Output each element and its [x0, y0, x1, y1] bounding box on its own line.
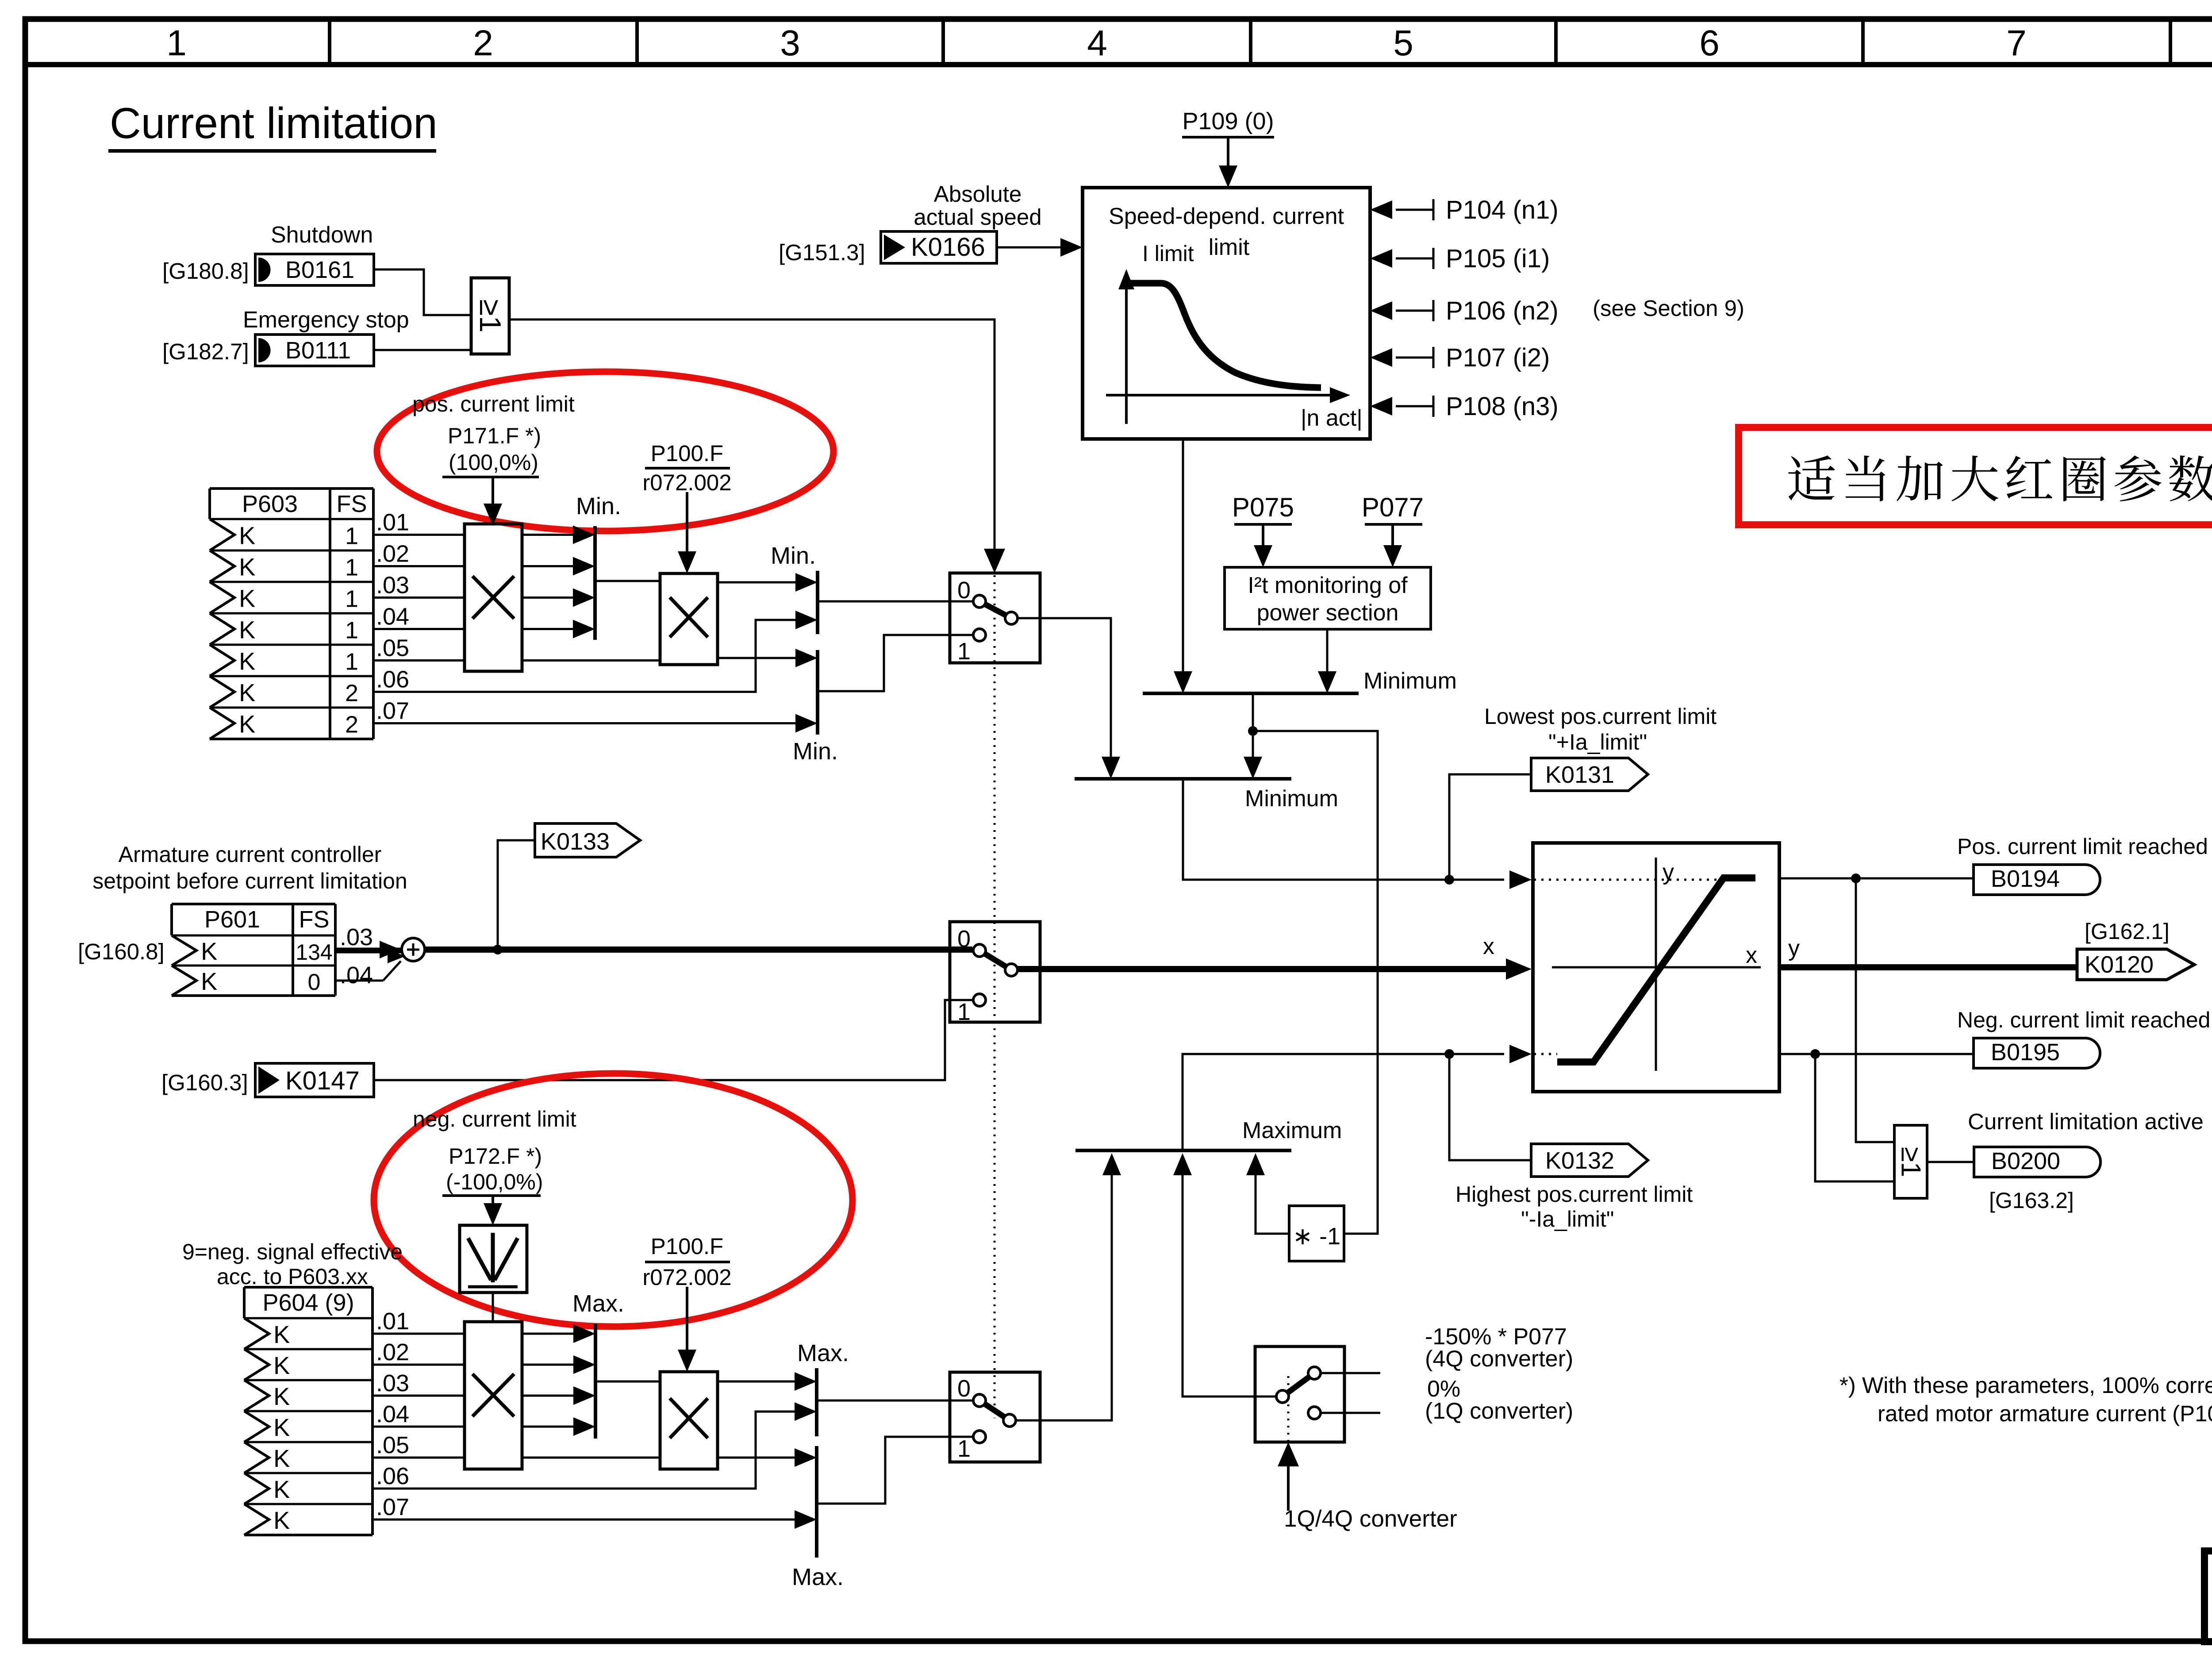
svg-text:.03: .03: [340, 924, 373, 950]
wires multiplier X3 outputs to Max rail: [522, 1333, 575, 1335]
wire .07 to Min rail M2: [373, 722, 796, 724]
svg-text:[G180.8]: [G180.8]: [162, 258, 249, 284]
svg-text:(100,0%): (100,0%): [449, 450, 538, 475]
wire X2 lower output to Min rail M2: [718, 657, 796, 659]
binector output B0200: [1974, 1147, 2101, 1177]
maximum rail output to limiter lower input: [1183, 1054, 1504, 1150]
svg-text:P601: P601: [204, 906, 260, 933]
svg-text:[G162.1]: [G162.1]: [2085, 919, 2170, 944]
speed-dependent current limit block: [1083, 188, 1370, 439]
svg-text:actual speed: actual speed: [914, 204, 1041, 230]
main setpoint line (thick): [425, 946, 972, 953]
svg-text:K: K: [239, 553, 255, 581]
wire limiter upper output to B0194: [1779, 877, 1974, 880]
svg-text:Minimum: Minimum: [1245, 786, 1338, 812]
svg-text:"+Ia_limit": "+Ia_limit": [1548, 730, 1647, 754]
wire junction down to Minimum rail M3: [1252, 731, 1254, 759]
wire B0161 to OR gate: [374, 269, 471, 315]
svg-text:B0194: B0194: [1991, 866, 2060, 892]
svg-text:Max.: Max.: [572, 1290, 624, 1317]
svg-text:Pos. current limit reached: Pos. current limit reached: [1957, 834, 2208, 859]
svg-text:K0133: K0133: [541, 828, 610, 855]
svg-text:1: 1: [957, 638, 971, 665]
svg-text:P075: P075: [1232, 492, 1294, 522]
svg-text:Emergency stop: Emergency stop: [243, 307, 409, 333]
svg-text:K: K: [239, 585, 255, 612]
wire OR output to switch control: [509, 319, 995, 551]
svg-text:FS: FS: [336, 491, 367, 517]
svg-text:2: 2: [473, 23, 493, 63]
minimum rail M1: [593, 526, 597, 640]
wire K0132: [1449, 1058, 1531, 1160]
svg-text:x: x: [1483, 934, 1494, 959]
svg-text:.05: .05: [376, 635, 409, 662]
svg-text:.04: .04: [340, 962, 373, 989]
svg-text:1: 1: [345, 523, 358, 550]
svg-text:y: y: [1663, 859, 1674, 885]
sheet number box - G161 -: [2204, 1551, 2212, 1642]
svg-text:B0161: B0161: [285, 257, 354, 283]
svg-text:(4Q converter): (4Q converter): [1425, 1346, 1573, 1372]
wires P604 outputs: [373, 1333, 465, 1335]
svg-text:.05: .05: [376, 1432, 409, 1458]
svg-text:.06: .06: [376, 666, 409, 693]
wire M2 lower output to switch S1 input 1: [818, 635, 973, 691]
svg-text:K: K: [273, 1382, 290, 1410]
svg-text:Lowest pos.current limit: Lowest pos.current limit: [1484, 704, 1717, 729]
svg-text:K0132: K0132: [1545, 1147, 1614, 1174]
wire *-1 output to maximum rail: [1256, 1173, 1289, 1234]
konnector output K0133: [535, 823, 640, 857]
connector table P604: [244, 1286, 373, 1289]
svg-text:(see Section 9): (see Section 9): [1593, 296, 1744, 321]
limiter dashed lower limit: [1534, 1053, 1557, 1055]
multiplier X1 (pos limit): [465, 524, 522, 671]
wire U2 to B0200: [1927, 1161, 1974, 1163]
svg-text:P106 (n2): P106 (n2): [1446, 296, 1559, 325]
svg-text:.07: .07: [376, 1494, 409, 1520]
header band bottom rule: [25, 62, 2212, 67]
svg-text:.07: .07: [376, 698, 409, 724]
selector switch S1 (pos limit): [950, 573, 1040, 663]
minimum rail M2 lower: [816, 650, 819, 735]
svg-text:K: K: [239, 679, 255, 707]
svg-text:Shutdown: Shutdown: [271, 222, 373, 248]
svg-text:Highest pos.current limit: Highest pos.current limit: [1455, 1182, 1693, 1207]
wire K.03 to summer (thick): [335, 948, 402, 954]
svg-text:.04: .04: [376, 1401, 409, 1427]
wire 4Q option: [1321, 1372, 1380, 1374]
wire K0166 to speed block: [997, 246, 1062, 249]
svg-text:Neg. current limit reached: Neg. current limit reached: [1957, 1008, 2210, 1032]
svg-text:B0195: B0195: [1991, 1039, 2060, 1066]
maximum rail M4: [1075, 1149, 1291, 1152]
svg-text:K: K: [239, 647, 255, 675]
wire limiter y output to K0120 (thick): [1779, 964, 2077, 970]
svg-text:5: 5: [1393, 23, 1413, 63]
svg-text:P107 (i2): P107 (i2): [1446, 343, 1550, 372]
wire P100.F to multiplier X2: [686, 492, 688, 552]
wire .07 to Max rail N2: [373, 1519, 795, 1521]
svg-text:Max.: Max.: [797, 1340, 849, 1366]
svg-text:1: 1: [345, 649, 358, 675]
wire B0111 to OR gate: [374, 349, 471, 351]
konnector K0166: [881, 231, 997, 263]
svg-text:*) With these parameters, 100: *) With these parameters, 100% correspon…: [1839, 1373, 2212, 1398]
svg-text:K: K: [239, 710, 255, 738]
svg-text:limit: limit: [1209, 235, 1250, 260]
speed limit curve: [1126, 283, 1321, 388]
svg-text:[G160.8]: [G160.8]: [78, 939, 165, 964]
svg-text:"-Ia_limit": "-Ia_limit": [1521, 1207, 1614, 1231]
svg-text:K: K: [273, 1506, 290, 1534]
svg-text:K0147: K0147: [285, 1066, 360, 1095]
svg-text:K: K: [273, 1320, 290, 1348]
limiter dashed upper limit: [1534, 879, 1720, 881]
limiter characteristic curve: [1557, 878, 1755, 1062]
wire .06 to Max rail N2: [373, 1412, 795, 1489]
svg-text:.03: .03: [376, 572, 409, 599]
n act axis: [1106, 394, 1332, 396]
svg-text:3: 3: [780, 23, 800, 63]
svg-text:(-100,0%): (-100,0%): [446, 1170, 543, 1194]
svg-text:P100.F: P100.F: [651, 1234, 723, 1259]
wire M2 upper output to switch S1 input 0: [818, 600, 973, 603]
svg-text:neg. current limit: neg. current limit: [413, 1107, 576, 1131]
svg-text:acc. to P603.xx: acc. to P603.xx: [217, 1264, 368, 1289]
svg-text:Min.: Min.: [576, 493, 621, 519]
svg-text:7: 7: [2006, 23, 2027, 63]
svg-text:P077: P077: [1362, 492, 1424, 522]
svg-text:K: K: [273, 1444, 290, 1472]
wire .06 to Min rail M2: [373, 620, 796, 692]
binector B0111: [255, 335, 374, 366]
svg-text:K: K: [201, 937, 217, 965]
svg-text:134: 134: [296, 940, 332, 965]
wire Max rail N1 to multiplier X4: [595, 1381, 660, 1383]
svg-text:0: 0: [957, 577, 971, 604]
multiplier X4 (neg norm): [660, 1372, 718, 1469]
binector B0161: [255, 254, 374, 285]
svg-text:P109 (0): P109 (0): [1182, 108, 1274, 135]
konnector output K0131: [1531, 758, 1648, 791]
parameter inputs P104-P108: [1396, 209, 1433, 211]
wire P077 down: [1391, 524, 1394, 548]
svg-text:0: 0: [308, 969, 321, 995]
maximum rail N2 lower: [815, 1446, 818, 1558]
svg-text:K0120: K0120: [2085, 951, 2154, 978]
selector switch 1Q/4Q: [1255, 1347, 1344, 1442]
multiplier X2 (pos norm): [660, 573, 718, 665]
wires multiplier X1 outputs to Min bar: [522, 534, 575, 536]
svg-text:(1Q converter): (1Q converter): [1425, 1398, 1573, 1424]
konnector output K0120: [2077, 949, 2194, 980]
I limit axis: [1125, 285, 1128, 424]
svg-text:r072.002: r072.002: [642, 1265, 731, 1290]
svg-text:.02: .02: [376, 541, 409, 567]
wire B0195 branch to OR gate U2: [1815, 1054, 1894, 1181]
svg-text:[G182.7]: [G182.7]: [162, 339, 249, 364]
svg-text:1: 1: [345, 586, 358, 612]
svg-text:1: 1: [957, 999, 971, 1025]
svg-text:[G163.2]: [G163.2]: [1989, 1188, 2074, 1213]
svg-text:9=neg. signal effective: 9=neg. signal effective: [182, 1239, 403, 1264]
minimum rail M2 upper: [816, 571, 819, 634]
svg-text:|n act|: |n act|: [1301, 405, 1363, 431]
wire limiter lower output to B0195: [1779, 1053, 1974, 1055]
wire 1Q option: [1321, 1412, 1380, 1414]
wire P075 down: [1262, 524, 1264, 548]
svg-text:1: 1: [166, 23, 187, 63]
svg-text:0: 0: [957, 1375, 971, 1402]
wire M3 output to limiter upper input: [1183, 779, 1504, 880]
svg-text:B0111: B0111: [285, 337, 351, 364]
svg-text:.01: .01: [376, 509, 409, 536]
wire X2 upper output to Min rail M2: [718, 581, 796, 584]
svg-text:Minimum: Minimum: [1363, 668, 1457, 694]
wire K0131: [1449, 774, 1531, 875]
wire S2 output to limiter x input (thick): [1018, 966, 1506, 972]
header column separators: [328, 22, 331, 62]
junction to K0131: [1444, 875, 1454, 885]
svg-text:1: 1: [345, 554, 358, 581]
limiter block: [1533, 843, 1779, 1092]
OR gate U1 (>=1): [471, 278, 509, 354]
svg-text:P603: P603: [242, 491, 298, 517]
svg-text:1Q/4Q converter: 1Q/4Q converter: [1284, 1506, 1457, 1532]
svg-text:rated motor armature current (: rated motor armature current (P100): [1878, 1401, 2212, 1426]
svg-text:P171.F *): P171.F *): [448, 423, 541, 448]
svg-text:≥1: ≥1: [473, 299, 507, 332]
binector output B0195: [1974, 1038, 2100, 1068]
svg-text:P604 (9): P604 (9): [262, 1289, 354, 1316]
inverter block *-1: [1289, 1206, 1344, 1261]
wire clamp to multiplier X3: [492, 1293, 494, 1322]
wire K0147 to switch S2 input 1: [374, 1000, 973, 1080]
svg-text:2: 2: [345, 712, 358, 738]
svg-text:2: 2: [345, 680, 358, 707]
wire .05 through to multiplier X2: [522, 659, 660, 662]
wire X4 upper output to Max rail N2: [718, 1381, 795, 1383]
binector output B0194: [1974, 865, 2100, 895]
svg-text:P104 (n1): P104 (n1): [1446, 196, 1559, 224]
wire switch S3 output up to maximum rail: [1016, 1173, 1112, 1420]
svg-text:K: K: [239, 616, 255, 644]
svg-text:K: K: [201, 967, 217, 995]
svg-text:6: 6: [1699, 23, 1720, 63]
svg-text:.02: .02: [376, 1339, 409, 1366]
svg-text:[G160.3]: [G160.3]: [161, 1070, 248, 1095]
wire P171 to multiplier: [492, 477, 494, 504]
svg-text:Armature current controller: Armature current controller: [119, 842, 382, 867]
svg-text:1: 1: [957, 1435, 971, 1462]
wire N2 lower output to switch S3 input 1: [817, 1437, 973, 1504]
konnector K0147: [255, 1063, 374, 1097]
svg-text:pos. current limit: pos. current limit: [412, 392, 575, 416]
wire P109 to speed block: [1227, 137, 1229, 167]
svg-text:power section: power section: [1257, 600, 1399, 626]
wire speed block output down to Minimum rail: [1182, 439, 1184, 673]
wire M0 output junction: [1252, 693, 1254, 731]
svg-text:.04: .04: [376, 604, 409, 630]
wires P603 outputs: [373, 534, 465, 536]
control arrow 1Q/4Q converter: [1287, 1460, 1290, 1511]
svg-text:P105 (i1): P105 (i1): [1446, 244, 1550, 273]
svg-text:Absolute: Absolute: [934, 181, 1022, 207]
svg-text:y: y: [1788, 935, 1800, 961]
red highlight ellipse around P171/P100: [377, 372, 833, 531]
svg-text:Max.: Max.: [792, 1564, 844, 1590]
svg-text:K: K: [273, 1475, 290, 1503]
svg-text:K0166: K0166: [911, 233, 985, 262]
svg-text:I²t monitoring of: I²t monitoring of: [1248, 573, 1408, 598]
I2t monitoring block: [1225, 567, 1431, 629]
wire K.04 to summer: [335, 980, 383, 982]
svg-text:K: K: [239, 522, 255, 550]
wire P100.F to multiplier X4: [686, 1287, 688, 1350]
svg-text:1: 1: [345, 617, 358, 644]
red note box: [1739, 427, 2212, 525]
svg-text:P100.F: P100.F: [651, 441, 723, 466]
svg-text:r072.002: r072.002: [642, 470, 731, 495]
wire Min rail to multiplier X2: [595, 580, 660, 582]
svg-text:.03: .03: [376, 1370, 409, 1397]
svg-text:4: 4: [1087, 23, 1107, 63]
svg-text:[G151.3]: [G151.3]: [779, 240, 865, 265]
svg-text:P108 (n3): P108 (n3): [1446, 392, 1559, 421]
wire X4 lower output to Max rail N2: [718, 1457, 795, 1459]
selector switch S2 (setpoint): [950, 922, 1040, 1022]
svg-text:Min.: Min.: [793, 738, 838, 765]
svg-text:≥1: ≥1: [1896, 1147, 1926, 1177]
svg-text:K: K: [273, 1413, 290, 1441]
negative clamp symbol block: [460, 1225, 527, 1293]
svg-text:x: x: [1746, 943, 1757, 968]
red highlight ellipse around P172/P100: [374, 1073, 853, 1327]
svg-text:FS: FS: [299, 906, 329, 933]
svg-text:.06: .06: [376, 1463, 409, 1489]
maximum rail N1: [594, 1324, 597, 1439]
multiplier X3 (neg limit): [465, 1322, 522, 1469]
konnector output K0132: [1531, 1144, 1648, 1177]
maximum rail N2 upper: [815, 1368, 818, 1436]
wire junction to inverter *-1: [1253, 731, 1378, 1234]
svg-text:I limit: I limit: [1142, 241, 1194, 266]
svg-text:P172.F *): P172.F *): [449, 1144, 542, 1169]
svg-text:Min.: Min.: [771, 542, 816, 569]
selector switch S3 (neg limit): [950, 1372, 1040, 1462]
svg-text:K: K: [273, 1351, 290, 1379]
svg-text:0: 0: [957, 926, 971, 952]
svg-text:Speed-depend. current: Speed-depend. current: [1109, 204, 1344, 229]
wire S1 output to Minimum rail M3: [1018, 618, 1111, 759]
wire N2 upper output to switch S3 input 0: [817, 1400, 973, 1402]
minimum rail M0 (speed/I2t): [1143, 692, 1359, 695]
svg-text:Maximum: Maximum: [1242, 1118, 1342, 1143]
svg-text:setpoint before current limita: setpoint before current limitation: [92, 869, 407, 893]
minimum rail M3: [1075, 777, 1291, 781]
svg-text:∗ -1: ∗ -1: [1293, 1223, 1340, 1250]
connector table P603 with FS column: [210, 487, 373, 490]
svg-text:Current limitation: Current limitation: [110, 99, 438, 147]
summing junction: [402, 938, 425, 961]
wire I2t output down to Minimum rail: [1326, 629, 1329, 673]
svg-text:.01: .01: [376, 1308, 409, 1335]
svg-text:Current limitation active: Current limitation active: [1968, 1109, 2204, 1134]
dotted control line through switches: [994, 575, 996, 1418]
wire K0133 to main line: [498, 840, 535, 945]
connector table P601: [172, 903, 335, 905]
wire B0194 branch to OR gate U2: [1856, 878, 1894, 1142]
svg-text:B0200: B0200: [1991, 1148, 2060, 1174]
chinese note text: [1788, 455, 2212, 501]
svg-text:K0131: K0131: [1545, 762, 1614, 788]
dotted control line 1Q4Q: [1287, 1376, 1290, 1442]
wire P172 to clamp symbol: [492, 1196, 494, 1206]
wire 1Q4Q output up to maximum rail: [1183, 1173, 1276, 1397]
OR gate U2 (>=1): [1894, 1125, 1927, 1198]
wire .05 through to multiplier X4: [522, 1457, 660, 1459]
